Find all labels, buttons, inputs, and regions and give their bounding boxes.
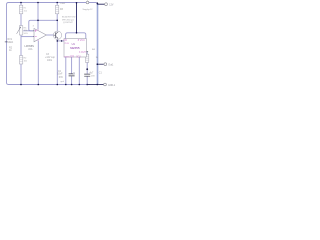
resistor R1 [19, 5, 27, 14]
svg-text:Supply+12: Supply+12 [83, 9, 94, 11]
wire: IC top hooks to pins 4 and 8 [66, 33, 86, 39]
wire: IC bottom pin GND to bus [65, 57, 67, 85]
resistor R2 [19, 56, 27, 64]
wire: supply drop to IC (dark) [76, 3, 78, 33]
svg-text:8 VCC: 8 VCC [78, 39, 85, 42]
node: y20 cross [37, 20, 39, 22]
wire: bottom ground bus [9, 84, 91, 86]
transistor Q1 [53, 17, 76, 40]
node: IC supply split [76, 32, 78, 34]
svg-text:10nF: 10nF [57, 74, 63, 76]
svg-text:Out1: Out1 [108, 63, 114, 66]
node: bus/C2 [71, 84, 73, 86]
svg-text:16V: 16V [91, 76, 95, 78]
svg-text:2TR: 2TR [70, 57, 75, 59]
capacitor C1 (electrolytic) [84, 68, 102, 77]
wire: IC bottom pin CV to bus [78, 57, 80, 85]
node: rail/right vertical [97, 2, 99, 4]
connector J1 on rail [83, 0, 94, 11]
node: rail/R1 [20, 2, 22, 4]
wire: op-amp output to transistor base [46, 34, 53, 36]
node: rail/IC supply [76, 2, 78, 4]
node: emitter [57, 40, 59, 42]
wire: op-amp V- down to bus [37, 41, 39, 85]
svg-text:10k: 10k [24, 10, 27, 12]
svg-text:NE555: NE555 [70, 46, 80, 50]
op-amp U2 [25, 25, 47, 51]
svg-text:3 OUT: 3 OUT [79, 52, 86, 54]
wire: R3 column / collector node horizontal y=20.3 [29, 3, 57, 31]
potentiometer R5 [17, 26, 28, 35]
terminal OUT right [104, 63, 114, 67]
node: bus/C1 [86, 84, 88, 86]
svg-text:BC547B TO92: BC547B TO92 [62, 17, 76, 19]
svg-text:LM358N: LM358N [25, 45, 35, 48]
node: bus/IC GND [65, 84, 67, 86]
wire: bottom-right bus to GND terminal (dark) [88, 84, 103, 86]
svg-text:+12V sup: +12V sup [45, 57, 55, 59]
node: rail/opamp V+ [37, 2, 39, 4]
wire: pot bottom to op-amp inverting input [21, 36, 33, 38]
svg-text:7DIS: 7DIS [64, 43, 69, 45]
svg-text:50%: 50% [24, 33, 28, 35]
IC U1 NE555 [63, 39, 86, 59]
wire: out terminal horizontal (dark) [98, 63, 104, 65]
svg-text:gnd: gnd [61, 81, 64, 83]
node: bus/IC CV [79, 84, 81, 86]
net label tick on left rail [5, 41, 8, 43]
node: bus/opamp V- [38, 84, 40, 86]
capacitor C2 [57, 71, 75, 79]
wire: IC OUT pin through R4 and C1 to bus [86, 52, 88, 85]
svg-text:hFE 200 npn: hFE 200 npn [62, 19, 75, 21]
node: out junction [97, 63, 99, 65]
wire: top +12V rail [7, 3, 97, 5]
svg-text:63V: 63V [59, 77, 64, 79]
wire: op-amp V+ supply drop x=38 [37, 3, 39, 30]
node: collector/R3 [56, 20, 58, 22]
node: bus/right vertical [97, 84, 99, 86]
terminal 12V top right [105, 3, 114, 7]
wire: pot wiper to op-amp non-inverting input [23, 30, 33, 32]
svg-text:Q1 BC547: Q1 BC547 [63, 22, 74, 24]
svg-text:5CV: 5CV [76, 57, 81, 59]
junction dots [20, 2, 98, 86]
svg-text:U2A: U2A [28, 48, 33, 51]
svg-text:12V: 12V [109, 4, 114, 6]
svg-text:4 R: 4 R [63, 39, 67, 42]
node: bus/emitter [57, 84, 59, 86]
node: bus/R2 [20, 84, 22, 86]
wire: collector down to transistor [56, 20, 58, 31]
svg-text:GND-1: GND-1 [108, 85, 116, 87]
resistor R4 [85, 49, 98, 62]
wire: emitter node to IC pin7 and down to bus [57, 39, 64, 84]
svg-text:100n: 100n [47, 60, 53, 62]
svg-text:10kΩ: 10kΩ [8, 41, 14, 44]
wire: IC bottom pin TR to cap C2 and bus [71, 57, 73, 85]
wire: left rail down to bus [7, 5, 9, 85]
node: rail/R3 [56, 2, 58, 4]
svg-text:10kΩ: 10kΩ [60, 3, 66, 5]
terminal GND bottom right [104, 83, 116, 87]
wire: right 12V vertical [97, 3, 99, 85]
node: emitter/IC pin7 [61, 40, 63, 42]
wire: top-right to 12V terminal (dark) [97, 3, 104, 4]
wire: R1/pot column x=21 [20, 3, 22, 85]
resistor R3 [55, 3, 65, 14]
